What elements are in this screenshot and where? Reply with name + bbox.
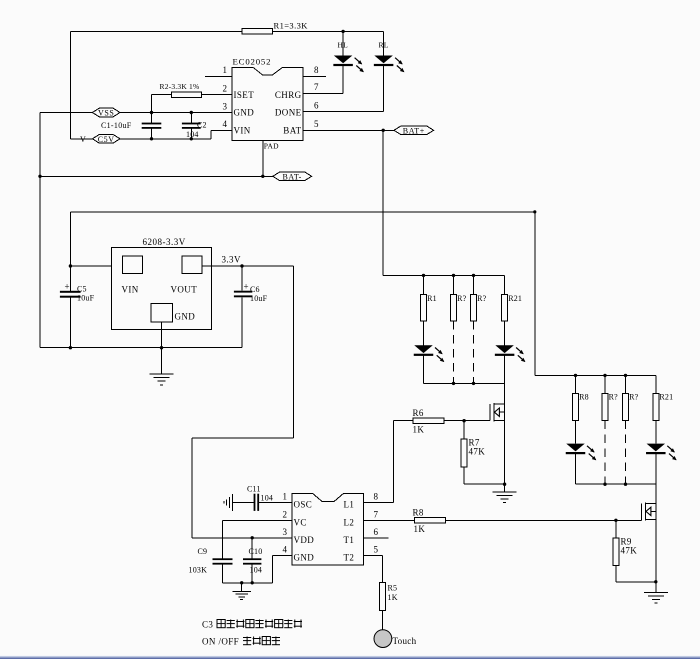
svg-text:8: 8 [314,65,319,75]
svg-text:R21: R21 [508,294,522,303]
svg-text:5: 5 [314,119,319,129]
svg-text:+: + [244,282,249,292]
svg-text:C3: C3 [202,620,213,630]
svg-text:VIN: VIN [234,126,251,136]
svg-text:1: 1 [223,65,228,75]
svg-text:PAD: PAD [264,142,279,151]
svg-text:L1: L1 [344,500,355,510]
svg-text:VIN: VIN [122,284,139,294]
svg-text:T2: T2 [344,553,355,563]
svg-text:GND: GND [175,312,196,322]
svg-text:ISET: ISET [234,90,255,100]
svg-text:C9: C9 [198,547,208,556]
svg-text:DONE: DONE [275,108,302,118]
svg-text:R?: R? [609,393,619,402]
svg-text:C11: C11 [247,484,261,493]
svg-text:1: 1 [283,491,288,501]
svg-text:2: 2 [223,83,228,93]
svg-text:6: 6 [374,527,379,537]
svg-text:C5: C5 [77,285,87,294]
svg-text:R8: R8 [579,393,589,402]
svg-text:7: 7 [314,82,319,92]
svg-text:R?: R? [629,393,639,402]
svg-text:T1: T1 [344,535,355,545]
svg-text:4: 4 [223,119,228,129]
svg-text:R8: R8 [413,507,424,517]
svg-text:R5: R5 [388,584,398,593]
svg-text:C10: C10 [249,547,263,556]
svg-text:1K: 1K [413,425,425,435]
svg-text:1K: 1K [388,593,398,602]
svg-text:BAT-: BAT- [282,173,301,182]
svg-text:3.3V: 3.3V [222,254,241,264]
svg-text:7: 7 [374,509,379,519]
svg-text:R?: R? [477,294,487,303]
svg-text:C6: C6 [250,285,260,294]
svg-text:L2: L2 [344,518,355,528]
svg-text:47K: 47K [621,546,638,556]
svg-text:HL: HL [338,41,349,50]
svg-text:C2: C2 [197,121,207,130]
svg-text:ON /OFF: ON /OFF [202,637,239,647]
svg-text:GND: GND [294,553,315,563]
svg-text:10uF: 10uF [250,294,268,303]
svg-text:C5V: C5V [98,135,115,144]
svg-text:BAT+: BAT+ [403,127,425,136]
svg-text:+: + [65,281,70,291]
svg-text:GND: GND [234,108,255,118]
svg-text:47K: 47K [469,447,486,457]
svg-text:10uF: 10uF [77,294,95,303]
svg-text:3: 3 [283,527,288,537]
svg-text:1K: 1K [414,524,426,534]
svg-text:R1: R1 [427,294,437,303]
svg-text:CHRG: CHRG [275,90,302,100]
svg-text:VSS: VSS [98,109,114,118]
svg-text:2: 2 [283,509,288,519]
svg-text:5: 5 [374,545,379,555]
svg-text:8: 8 [374,491,379,501]
svg-text:R21: R21 [659,393,673,402]
svg-text:EC02052: EC02052 [233,57,272,67]
svg-text:103K: 103K [189,565,208,574]
svg-text:R6: R6 [413,408,424,418]
svg-text:104: 104 [250,565,263,574]
svg-text:VDD: VDD [294,535,315,545]
svg-text:C1-10uF: C1-10uF [101,121,132,130]
svg-text:6: 6 [314,101,319,111]
svg-text:4: 4 [283,545,288,555]
svg-text:OSC: OSC [294,500,313,510]
svg-text:V: V [80,135,86,144]
svg-text:R?: R? [457,294,467,303]
svg-text:104: 104 [261,493,274,502]
svg-text:RL: RL [379,41,389,50]
svg-text:3: 3 [223,101,228,111]
svg-text:BAT: BAT [283,126,301,136]
svg-text:R2-3.3K 1%: R2-3.3K 1% [160,82,200,91]
svg-text:Touch: Touch [393,636,417,646]
svg-text:VOUT: VOUT [171,284,198,294]
svg-text:VC: VC [294,518,307,528]
svg-text:R1=3.3K: R1=3.3K [274,21,309,31]
svg-text:6208-3.3V: 6208-3.3V [143,237,186,247]
